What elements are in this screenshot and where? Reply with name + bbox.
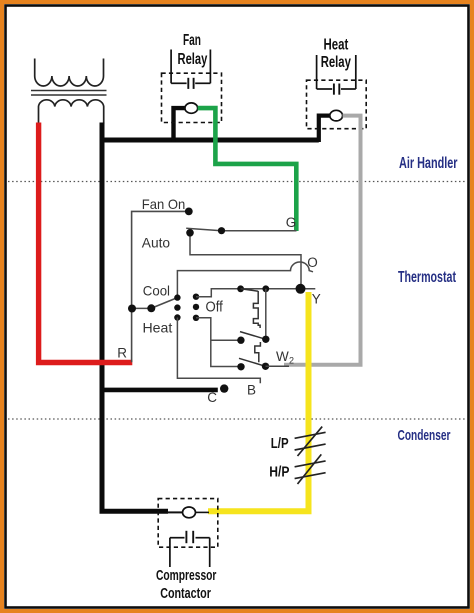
svg-text:Compressor: Compressor [156,567,216,584]
svg-text:2: 2 [289,356,294,366]
svg-text:R: R [117,346,127,361]
svg-text:Relay: Relay [321,54,351,71]
svg-text:Air Handler: Air Handler [399,155,458,172]
svg-text:Fan On: Fan On [142,196,186,212]
svg-text:L/P: L/P [271,436,289,452]
svg-text:Y: Y [312,291,321,306]
svg-text:Fan: Fan [183,32,201,49]
svg-text:G: G [286,215,297,230]
svg-text:Off: Off [206,299,224,315]
svg-text:W: W [276,349,289,364]
svg-text:Relay: Relay [178,51,208,68]
svg-text:O: O [307,255,318,270]
svg-text:Condenser: Condenser [398,428,451,444]
svg-text:B: B [247,383,256,398]
svg-text:Thermostat: Thermostat [398,269,456,286]
svg-text:Heat: Heat [324,37,349,54]
svg-text:Auto: Auto [142,235,170,251]
svg-text:H/P: H/P [269,465,289,481]
svg-text:C: C [207,390,217,405]
svg-text:Cool: Cool [143,283,170,299]
svg-text:Heat: Heat [143,320,173,336]
svg-text:Contactor: Contactor [160,585,211,602]
